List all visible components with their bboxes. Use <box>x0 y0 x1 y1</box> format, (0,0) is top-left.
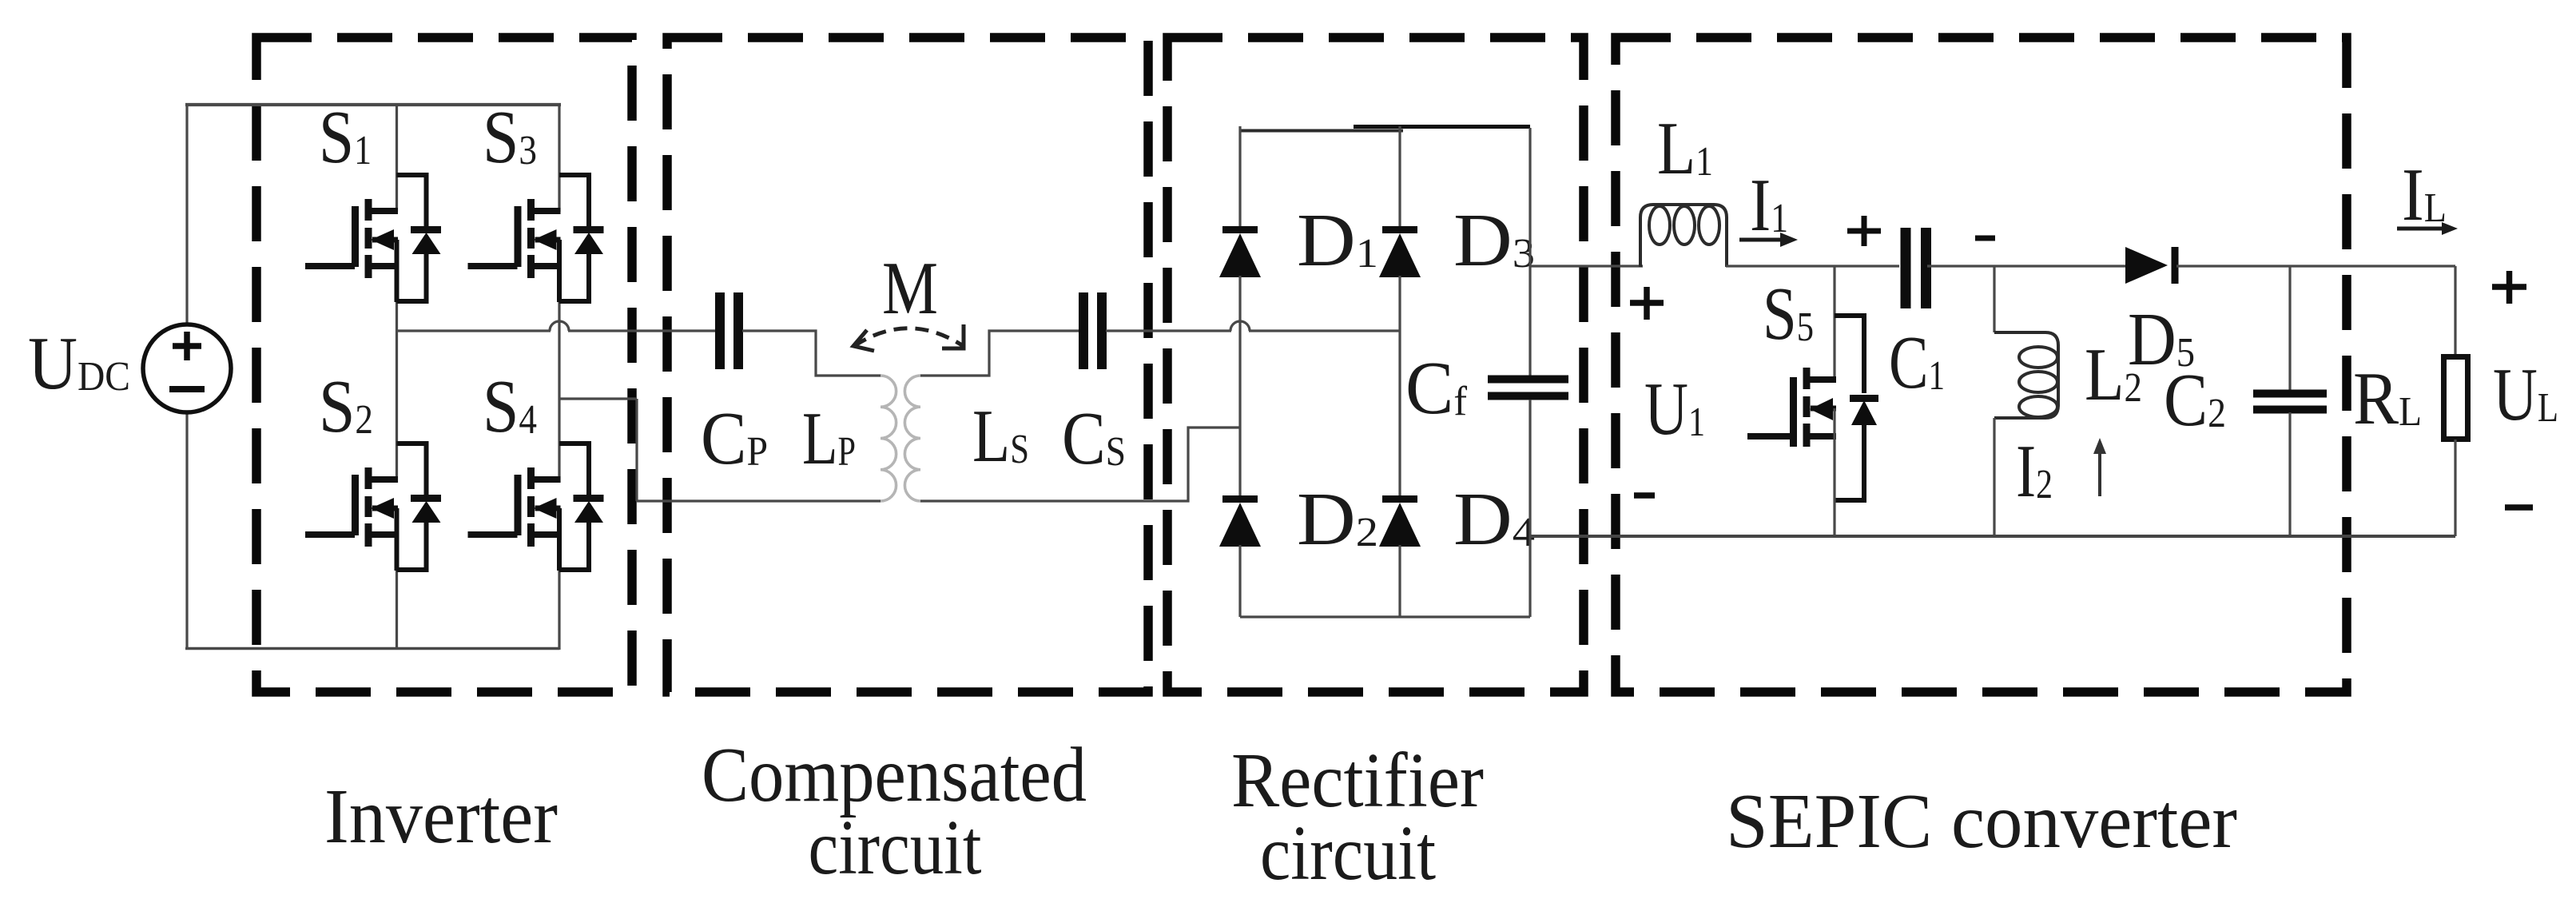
transistor S4 <box>468 444 604 571</box>
svg-text:circuit: circuit <box>1260 810 1436 897</box>
transistor S2 <box>305 444 441 571</box>
label UL plus <box>2492 271 2526 304</box>
diode D5 <box>2125 247 2175 284</box>
wire right leg bottom <box>1529 400 1531 617</box>
wire LS bottom to rectifier <box>920 428 1240 501</box>
wire middle leg bottom <box>1398 545 1401 617</box>
plus sign inside source <box>173 343 201 349</box>
wire S4 source leg <box>558 569 560 650</box>
wire rectifier + output to L1 <box>1530 265 1643 267</box>
dashed box Inverter <box>256 38 632 692</box>
wire L1 to C1 <box>1726 265 1899 267</box>
capacitor Cf <box>1488 380 1568 396</box>
wire D5 to load node <box>2176 265 2455 267</box>
wire inverter top rail <box>185 103 561 106</box>
label U1 plus <box>1630 287 1664 320</box>
wire hop to CP <box>568 329 716 332</box>
voltage source UDC <box>143 103 231 650</box>
wire S3 drain leg <box>558 105 560 212</box>
inductor LS <box>904 376 920 501</box>
node A : inverter mid output wire <box>397 321 717 331</box>
wire SEPIC bottom rail <box>1530 535 2455 538</box>
wire S1 drain leg <box>396 105 398 212</box>
wire LS top to CS step <box>920 331 1079 376</box>
diode D1 <box>1219 230 1261 278</box>
capacitor CS <box>1083 292 1102 369</box>
wire rectifier top rail right <box>1354 125 1530 129</box>
wire left leg bottom <box>1238 545 1241 617</box>
arrow I2 <box>2093 438 2106 496</box>
wire CP to LP step <box>742 331 881 376</box>
wire middle leg top <box>1398 126 1401 227</box>
capacitor C2 <box>2253 266 2327 537</box>
wire S2 source leg <box>396 569 398 650</box>
wire middle leg middle <box>1398 276 1401 496</box>
wire S3-S4 mid leg <box>558 301 560 483</box>
wire hop over S3 leg <box>550 321 569 331</box>
wire S1-S2 junction to hop <box>397 329 551 332</box>
wire left leg middle <box>1238 276 1241 496</box>
diode D4 <box>1379 499 1421 547</box>
node B : S3-S4 junction return wire <box>559 399 637 501</box>
wire C1 to D5 <box>1927 265 2127 267</box>
dashed box Rectifier circuit <box>1167 38 1584 692</box>
wire UDC bottom lead <box>185 412 188 650</box>
label UL minus <box>2505 504 2533 511</box>
inductor L1 <box>1640 205 1727 267</box>
transistor S5 <box>1747 266 1878 537</box>
capacitor CP <box>720 292 738 369</box>
mutual coupling arrow M <box>853 324 964 351</box>
wire right leg top <box>1529 128 1531 376</box>
diode D2 <box>1219 499 1261 547</box>
wire left leg top <box>1238 126 1241 227</box>
diode D3 <box>1379 230 1421 278</box>
svg-text:M: M <box>882 247 938 330</box>
svg-text:SEPIC converter: SEPIC converter <box>1726 778 2237 865</box>
label C1 plus <box>1847 216 1881 246</box>
capacitor C1 <box>1906 228 1926 308</box>
minus sign inside source <box>169 386 205 392</box>
wire S1-S2 mid leg <box>396 301 398 483</box>
dashed box Compensated circuit <box>667 38 1148 692</box>
wire CS to rectifier with hop <box>1106 321 1400 331</box>
dashed box SEPIC converter <box>1616 38 2347 692</box>
wire down to primary bottom <box>635 399 638 501</box>
resistor RL <box>2444 266 2468 536</box>
wire S3-S4 junction right <box>559 397 637 400</box>
transistor S1 <box>305 175 441 302</box>
svg-text:circuit: circuit <box>809 805 982 891</box>
label U1 minus <box>1634 492 1655 499</box>
inductor LP <box>881 376 896 501</box>
wire inverter bottom rail <box>185 647 559 650</box>
transistor S3 <box>468 175 604 302</box>
wire rectifier top rail left <box>1240 129 1403 133</box>
wire LP bottom return <box>637 499 881 502</box>
wire UDC top lead <box>185 103 188 324</box>
inductor L2 branch <box>1994 266 2058 537</box>
svg-text:Inverter: Inverter <box>324 774 558 860</box>
label C1 minus <box>1975 236 1995 241</box>
source circle <box>143 324 231 412</box>
wire rectifier bottom rail <box>1240 615 1530 618</box>
